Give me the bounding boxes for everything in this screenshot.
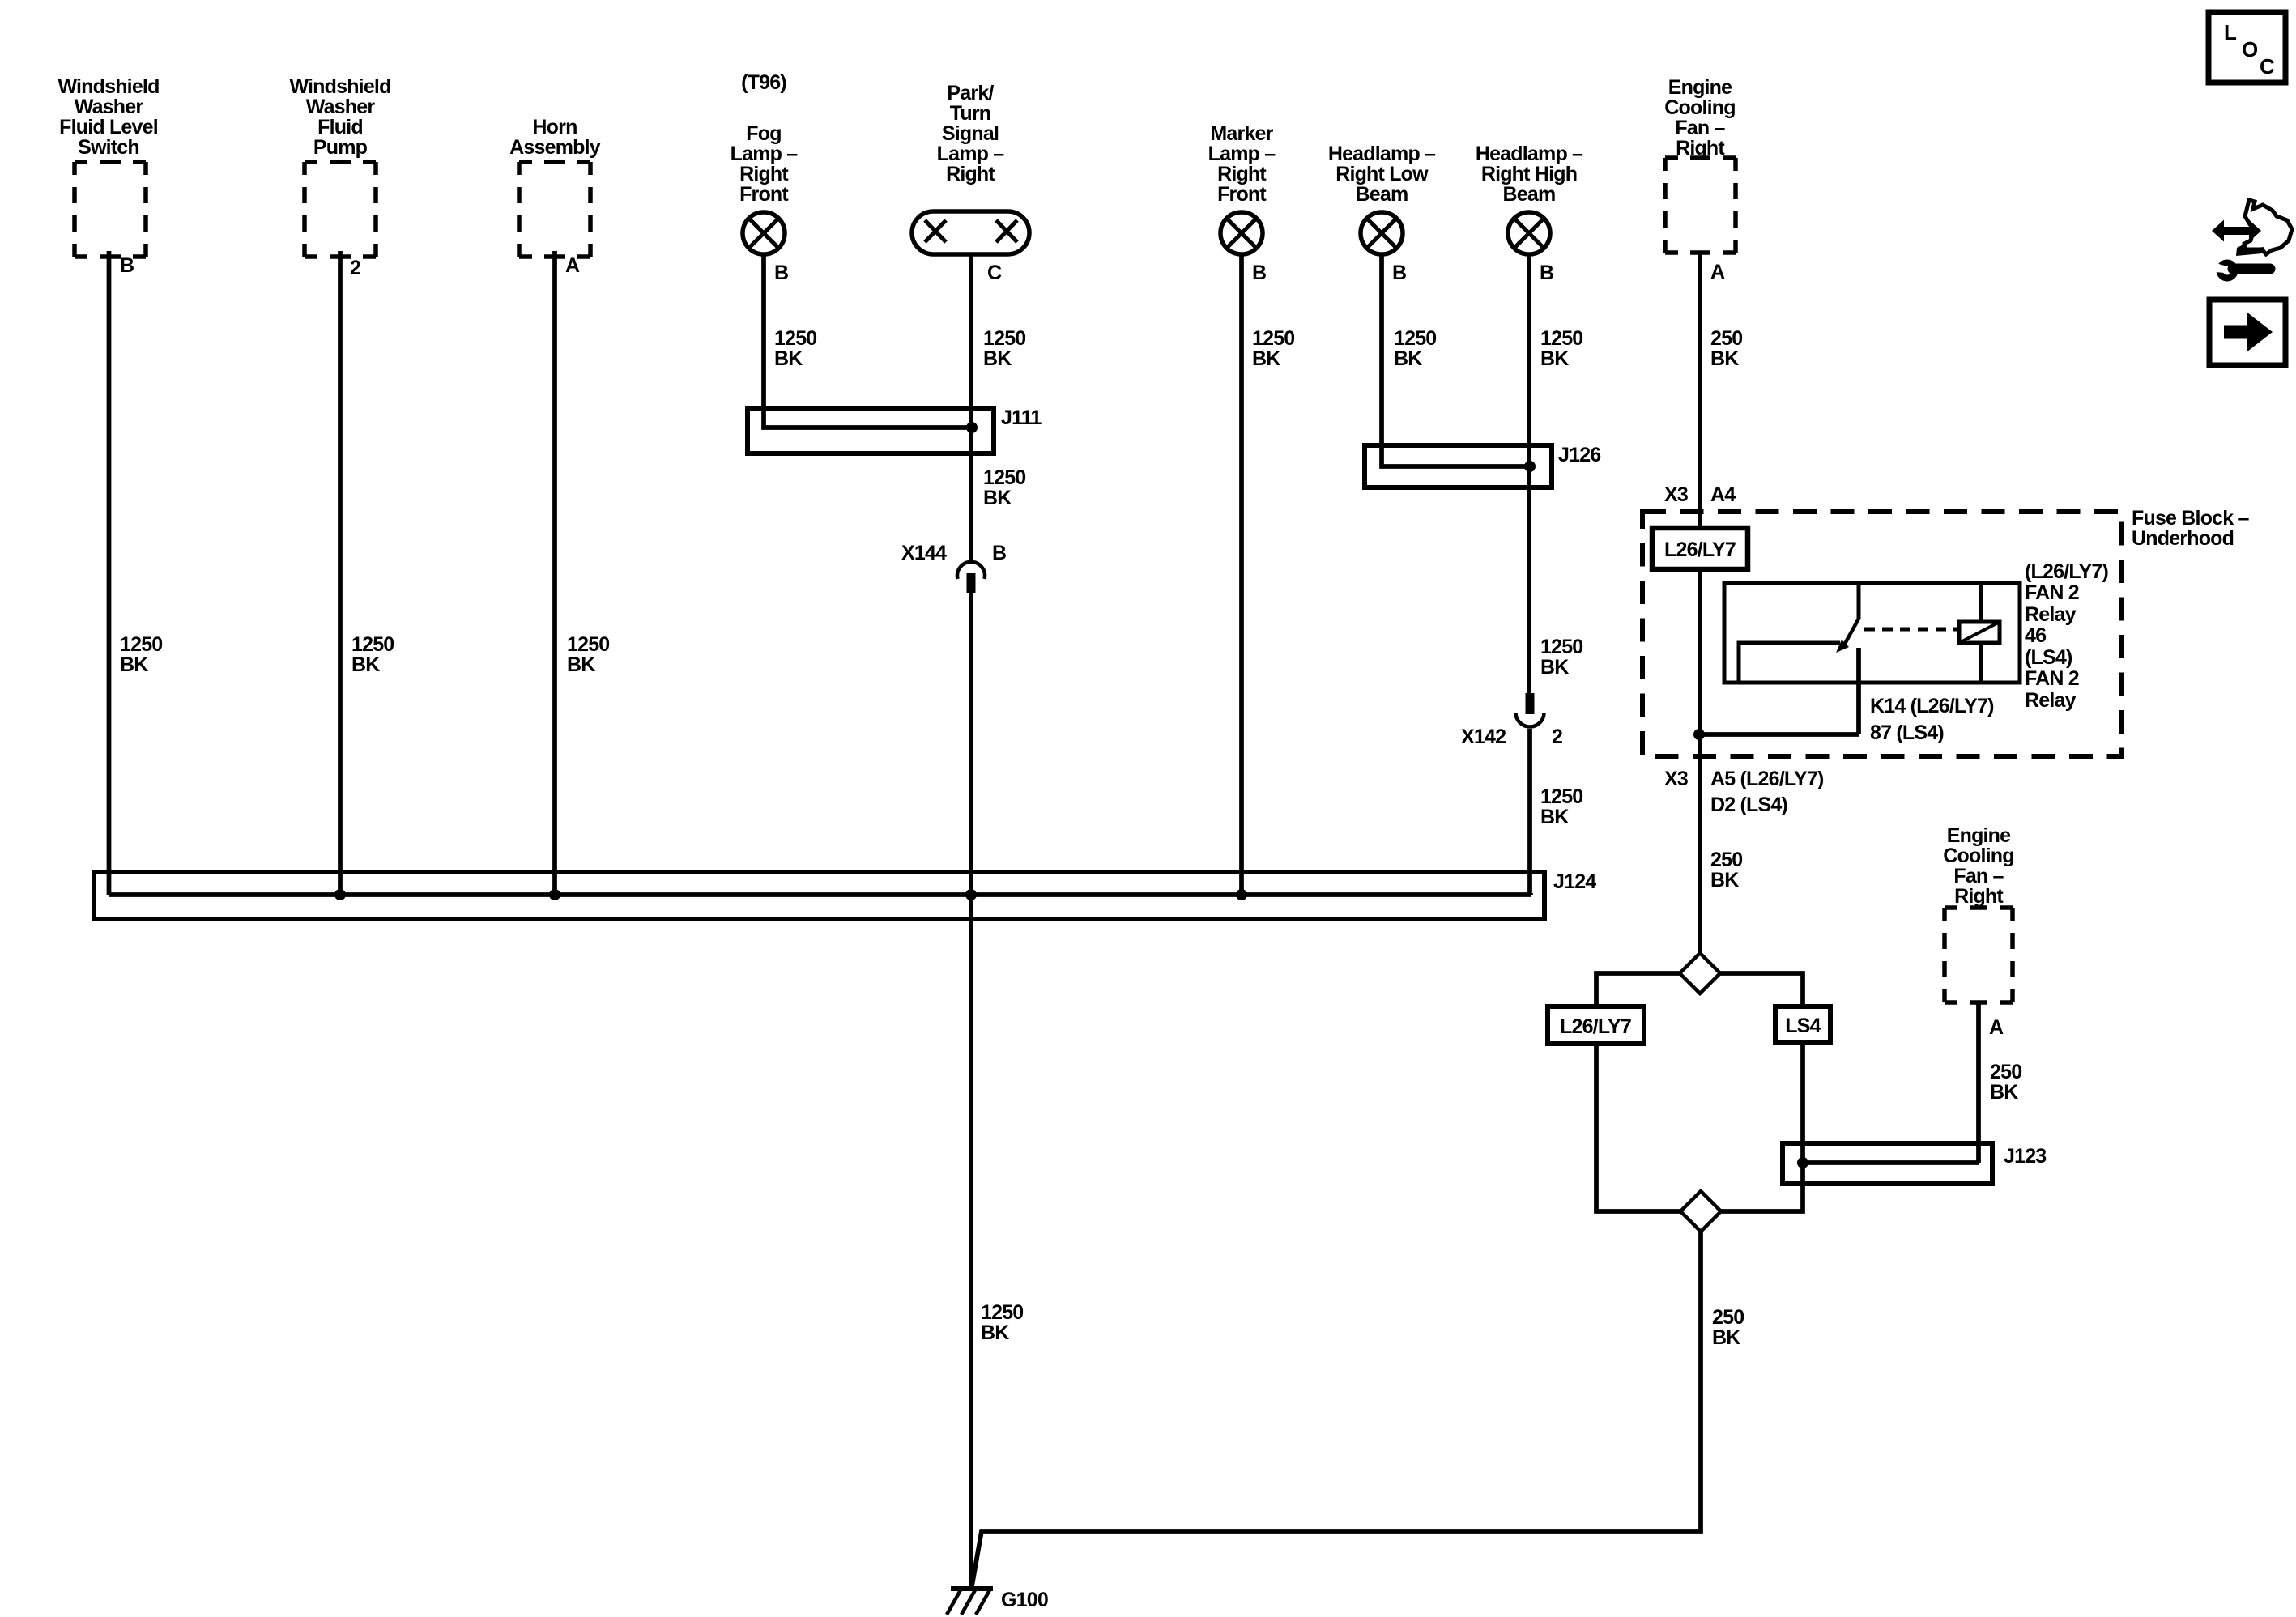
svg-text:LS4: LS4 (1785, 1015, 1821, 1037)
svg-text:BK: BK (1540, 347, 1569, 370)
svg-text:A: A (565, 254, 580, 277)
svg-text:BK: BK (1990, 1081, 2018, 1104)
svg-text:B: B (774, 262, 788, 284)
svg-text:1250: 1250 (774, 327, 816, 350)
svg-text:BK: BK (983, 347, 1012, 370)
svg-text:BK: BK (120, 653, 148, 676)
svg-text:BK: BK (983, 487, 1012, 509)
svg-text:(T96): (T96) (741, 71, 786, 94)
svg-text:(L26/LY7): (L26/LY7) (2025, 560, 2109, 583)
svg-text:1250: 1250 (567, 633, 609, 656)
svg-text:X142: X142 (1461, 726, 1506, 748)
svg-text:Fan –: Fan – (1675, 117, 1725, 139)
svg-text:X144: X144 (901, 542, 947, 564)
svg-text:Right: Right (1217, 163, 1267, 185)
svg-text:1250: 1250 (351, 633, 394, 656)
svg-text:BK: BK (1710, 869, 1739, 891)
svg-text:Fan –: Fan – (1953, 865, 2004, 887)
svg-text:X3: X3 (1664, 768, 1688, 790)
svg-text:1250: 1250 (1394, 327, 1436, 350)
svg-text:Right Low: Right Low (1335, 163, 1429, 185)
svg-text:Relay: Relay (2025, 689, 2077, 712)
svg-text:2: 2 (350, 257, 360, 279)
svg-text:C: C (987, 262, 1002, 284)
svg-text:BK: BK (1252, 347, 1280, 370)
svg-text:B: B (120, 254, 134, 277)
svg-text:B: B (1540, 262, 1553, 284)
svg-text:250: 250 (1710, 849, 1742, 871)
svg-text:Fuse Block –: Fuse Block – (2132, 507, 2250, 530)
svg-text:BK: BK (1710, 347, 1739, 370)
svg-text:Engine: Engine (1668, 76, 1732, 99)
svg-text:BK: BK (351, 653, 380, 676)
svg-text:Headlamp –: Headlamp – (1328, 143, 1436, 165)
svg-text:Beam: Beam (1503, 183, 1556, 206)
svg-text:Windshield: Windshield (289, 75, 390, 98)
svg-text:Fluid: Fluid (317, 116, 363, 138)
svg-text:Fog: Fog (746, 122, 781, 145)
svg-text:1250: 1250 (1540, 327, 1582, 350)
svg-text:Engine: Engine (1947, 824, 2011, 847)
svg-text:A: A (1989, 1016, 2004, 1039)
svg-text:BK: BK (1540, 656, 1569, 679)
svg-text:BK: BK (567, 653, 595, 676)
svg-text:BK: BK (981, 1321, 1009, 1344)
svg-text:C: C (2260, 54, 2275, 79)
svg-text:A5 (L26/LY7): A5 (L26/LY7) (1710, 768, 1824, 790)
svg-text:Right: Right (946, 163, 995, 185)
svg-text:Right High: Right High (1481, 163, 1577, 185)
svg-text:D2 (LS4): D2 (LS4) (1710, 794, 1787, 816)
svg-text:B: B (1252, 262, 1266, 284)
svg-text:(LS4): (LS4) (2025, 646, 2072, 669)
svg-text:Right: Right (1954, 885, 2004, 908)
svg-text:L26/LY7: L26/LY7 (1664, 538, 1736, 561)
svg-text:250: 250 (1712, 1306, 1744, 1329)
svg-text:BK: BK (1540, 806, 1569, 828)
svg-text:BK: BK (774, 347, 803, 370)
svg-text:J124: J124 (1553, 870, 1596, 893)
svg-text:Fluid Level: Fluid Level (59, 116, 158, 138)
svg-text:J126: J126 (1558, 444, 1600, 466)
svg-text:Lamp –: Lamp – (731, 143, 799, 165)
svg-text:Underhood: Underhood (2132, 527, 2234, 550)
svg-text:Assembly: Assembly (509, 136, 601, 159)
svg-text:A: A (1710, 261, 1725, 283)
svg-text:B: B (1392, 262, 1406, 284)
svg-text:Turn: Turn (950, 102, 991, 125)
svg-text:K14 (L26/LY7): K14 (L26/LY7) (1870, 695, 1994, 717)
svg-text:Windshield: Windshield (58, 75, 159, 98)
svg-text:Right: Right (1676, 137, 1725, 160)
svg-text:Front: Front (739, 183, 789, 206)
svg-text:1250: 1250 (1540, 785, 1582, 808)
svg-text:Park/: Park/ (947, 82, 994, 104)
svg-text:250: 250 (1990, 1061, 2021, 1083)
svg-text:J123: J123 (2004, 1145, 2046, 1168)
svg-text:X3: X3 (1664, 483, 1688, 506)
svg-text:FAN 2: FAN 2 (2025, 581, 2079, 604)
svg-text:Lamp –: Lamp – (1208, 143, 1276, 165)
svg-text:Beam: Beam (1356, 183, 1408, 206)
svg-text:87 (LS4): 87 (LS4) (1870, 721, 1944, 744)
svg-text:O: O (2242, 37, 2258, 62)
svg-text:1250: 1250 (983, 327, 1025, 350)
svg-text:Cooling: Cooling (1664, 96, 1735, 119)
svg-text:BK: BK (1712, 1326, 1740, 1349)
svg-text:46: 46 (2025, 624, 2046, 647)
svg-text:1250: 1250 (983, 466, 1025, 489)
svg-text:J111: J111 (1001, 406, 1042, 429)
svg-text:Headlamp –: Headlamp – (1476, 143, 1583, 165)
svg-text:Front: Front (1217, 183, 1267, 206)
svg-text:BK: BK (1394, 347, 1422, 370)
svg-text:2: 2 (1552, 726, 1562, 748)
svg-text:Lamp –: Lamp – (937, 143, 1005, 165)
svg-text:Relay: Relay (2025, 603, 2077, 626)
svg-text:1250: 1250 (981, 1301, 1023, 1324)
svg-text:Cooling: Cooling (1943, 845, 2013, 867)
svg-text:Switch: Switch (78, 136, 139, 159)
svg-text:L: L (2224, 20, 2237, 45)
svg-text:1250: 1250 (120, 633, 162, 656)
svg-text:1250: 1250 (1252, 327, 1294, 350)
svg-text:Signal: Signal (942, 122, 999, 145)
svg-text:Pump: Pump (313, 136, 368, 159)
svg-text:Washer: Washer (75, 96, 144, 118)
svg-text:A4: A4 (1710, 483, 1736, 506)
svg-text:1250: 1250 (1540, 636, 1582, 658)
svg-text:L26/LY7: L26/LY7 (1560, 1015, 1631, 1038)
svg-text:FAN 2: FAN 2 (2025, 667, 2079, 690)
svg-text:Horn: Horn (532, 116, 577, 138)
svg-text:G100: G100 (1001, 1589, 1048, 1611)
svg-text:B: B (992, 542, 1006, 564)
svg-text:Marker: Marker (1210, 122, 1273, 145)
svg-text:Right: Right (739, 163, 789, 185)
svg-text:250: 250 (1710, 327, 1742, 350)
svg-text:Washer: Washer (306, 96, 376, 118)
